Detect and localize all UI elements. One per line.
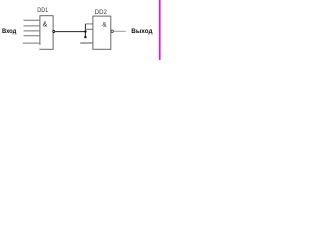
wire DD2 input stub 2 <box>85 28 93 30</box>
svg-text:&: & <box>102 22 107 29</box>
wire DD1 input stub 1 <box>24 19 40 21</box>
DD1 output inversion bubble <box>53 31 55 33</box>
wire DD2 output to Выход <box>114 30 126 32</box>
wire DD2 input tie bar <box>84 24 86 38</box>
svg-text:Вход: Вход <box>2 28 17 35</box>
wire DD1 input stub 4 <box>24 35 40 37</box>
gate DD2 body <box>93 16 111 49</box>
svg-text:DD2: DD2 <box>95 9 108 16</box>
cursor line (magenta) at right edge <box>159 0 161 60</box>
gate DD1 body <box>40 16 53 50</box>
wire DD1 input stub 2 <box>24 25 40 27</box>
gap in DD1 left edge <box>39 45 40 49</box>
svg-text:Выход: Выход <box>131 28 153 35</box>
wire DD1 input stub 3 (from Вход) <box>24 30 40 32</box>
wire DD2 input stub 1 <box>85 23 93 25</box>
DD2 output inversion bubble <box>111 30 113 32</box>
wire DD1 input stub 5 <box>23 42 40 44</box>
wire DD2 lower input stub <box>80 42 93 44</box>
svg-text:&: & <box>43 21 48 28</box>
junction dot at tie/wire <box>84 30 86 32</box>
svg-text:DD1: DD1 <box>37 7 48 14</box>
wire DD1 output to DD2 <box>55 31 85 33</box>
junction dot at tie bottom <box>84 36 86 38</box>
